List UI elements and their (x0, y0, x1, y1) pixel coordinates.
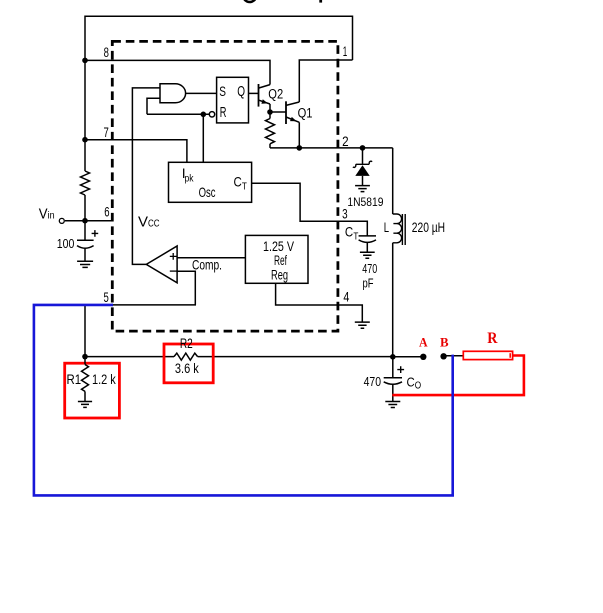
ground diode (355, 186, 370, 192)
wire red loop (392, 356, 524, 396)
dashed IC box U1 (112, 41, 338, 331)
svg-text:T: T (242, 181, 247, 193)
svg-text:S: S (219, 83, 226, 99)
cropped title remnant p (319, 0, 322, 3)
resistor R1 zigzag (82, 357, 89, 402)
wire left rail pin7 to Rsc (84, 140, 86, 171)
transistor Q2 (259, 84, 271, 112)
wire output to node A (393, 356, 424, 358)
resistor R right terminal notch (509, 353, 511, 358)
transistor Q1 (286, 101, 299, 148)
resistor R2 zigzag (174, 353, 198, 360)
svg-text:pk: pk (185, 172, 195, 184)
node pin8 junction (82, 58, 88, 64)
wire latch Q output to Q2 base (249, 92, 259, 94)
wire Q2 emitter to Q1 base (270, 111, 286, 113)
wire pin 6 stub (65, 220, 113, 222)
inductor L (393, 148, 406, 357)
svg-text:in: in (48, 210, 55, 222)
svg-text:5: 5 (104, 289, 109, 305)
svg-text:CC: CC (148, 218, 160, 230)
comparator minus (170, 270, 177, 272)
svg-text:R1: R1 (67, 372, 82, 387)
node Vin junction (82, 218, 88, 224)
wire Rsc to Vin node (84, 195, 86, 221)
svg-text:470: 470 (364, 375, 381, 389)
svg-text:C: C (345, 224, 353, 240)
svg-text:220 µH: 220 µH (412, 219, 445, 235)
svg-text:Q2: Q2 (268, 86, 283, 101)
svg-text:V: V (138, 214, 148, 231)
svg-text:4: 4 (343, 289, 349, 305)
wire blue feedback loop (34, 305, 453, 496)
wire pin 2 line (270, 147, 393, 149)
svg-text:6: 6 (104, 204, 109, 220)
wire outer loop Vin rail to pin 1 (85, 16, 353, 60)
capacitor CO (384, 357, 402, 402)
wire node B to resistor R (444, 355, 464, 357)
svg-text:pF: pF (363, 277, 374, 291)
svg-text:A: A (419, 335, 428, 349)
ground CT (360, 252, 375, 258)
wire R2 to output node (198, 356, 393, 358)
svg-text:R2: R2 (180, 336, 193, 351)
wire comparator output to AND input 1 (132, 88, 160, 265)
wire pin 5 inside box (113, 304, 196, 306)
capacitor 100uF (77, 221, 94, 262)
svg-text:470: 470 (362, 262, 377, 276)
wire pin 7 to osc (85, 140, 187, 163)
svg-text:C: C (407, 375, 415, 390)
svg-text:3.6 k: 3.6 k (175, 361, 199, 376)
resistor R red box (463, 351, 512, 359)
node Q2 emitter junction (267, 109, 273, 115)
svg-text:7: 7 (104, 124, 109, 140)
inverter bubble at R input (209, 112, 214, 117)
wire comparator minus to pin 5 (177, 271, 195, 305)
reference regulator box (245, 235, 308, 283)
oscillator box (169, 162, 252, 202)
R2 red box (164, 344, 213, 383)
ground 100uF (77, 261, 93, 267)
cropped title remnant g (244, 0, 255, 2)
wire pin 1 from Q1 collector (299, 60, 352, 102)
wire pin5 drop to R1 junction (84, 305, 86, 357)
node Q1 emitter junction (297, 145, 303, 151)
wire pin 8 to Q2 collector (85, 60, 270, 84)
svg-text:Comp.: Comp. (192, 256, 222, 272)
svg-text:T: T (353, 230, 358, 242)
ground pin 4 (355, 322, 370, 328)
plus sign CO (397, 366, 404, 373)
wire ref to comparator plus (177, 257, 245, 259)
svg-text:2: 2 (342, 133, 349, 149)
comparator plus (170, 253, 177, 260)
svg-text:L: L (384, 220, 390, 235)
svg-text:Q1: Q1 (298, 105, 313, 120)
svg-text:1N5819: 1N5819 (347, 195, 383, 209)
wire AND output to latch S (186, 92, 217, 94)
AND gate (160, 84, 186, 103)
plus sign 100uF (92, 230, 99, 237)
wire left rail pin8 to pin7 (84, 60, 86, 139)
svg-text:C: C (234, 174, 242, 190)
wire osc CT out to pin 3 (252, 183, 368, 236)
svg-text:1.25 V: 1.25 V (263, 239, 294, 254)
svg-text:Osc: Osc (199, 184, 216, 200)
diode 1N5819 (353, 148, 372, 186)
wire bottom feedback line (85, 356, 174, 358)
svg-text:V: V (39, 207, 48, 223)
latch U2 box (217, 77, 249, 123)
node R line junction (201, 112, 207, 118)
svg-text:O: O (415, 381, 422, 392)
node B dot (440, 353, 446, 359)
resistor Rsc (input series) (81, 171, 90, 195)
wire AND input 2 from R line (147, 98, 160, 114)
ground CO (385, 402, 400, 408)
node R1 R2 junction (82, 354, 88, 360)
svg-text:1.2 k: 1.2 k (92, 372, 116, 387)
svg-text:100: 100 (57, 237, 75, 251)
terminal Vin circle (59, 218, 64, 223)
wire R junction to Osc box (202, 114, 204, 162)
svg-text:B: B (440, 335, 449, 349)
node output junction (390, 354, 396, 360)
node pin7 junction (82, 137, 88, 143)
svg-text:Q: Q (237, 84, 245, 100)
wire ref reg to pin 4 ground (276, 283, 363, 322)
svg-text:1: 1 (343, 43, 348, 59)
capacitor CT (359, 236, 376, 252)
wire R input line (147, 113, 209, 115)
resistor driver (Q2 emitter to pin2) (266, 112, 275, 148)
svg-text:Reg: Reg (271, 267, 288, 282)
svg-text:R: R (487, 330, 498, 347)
node A dot (420, 354, 426, 360)
svg-text:Ref: Ref (274, 253, 287, 268)
node diode tap junction (360, 145, 366, 151)
svg-text:R: R (220, 105, 227, 121)
svg-text:8: 8 (104, 44, 109, 60)
R1 red box (65, 363, 120, 418)
ground R1 (78, 402, 92, 408)
comparator (146, 246, 177, 283)
